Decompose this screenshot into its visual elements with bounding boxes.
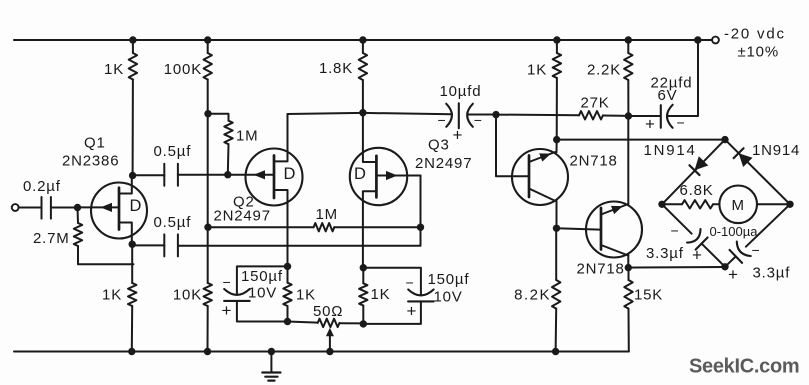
wire 0.5uf C3 to Q3 gate riser <box>178 227 421 246</box>
svg-text:Q3: Q3 <box>428 137 450 154</box>
svg-text:1K: 1K <box>527 62 547 79</box>
label 6.8K <box>680 182 714 199</box>
label D2 1N914 <box>752 142 800 159</box>
wire T2 collector to bridge bottom <box>628 266 725 269</box>
transistor T2 emitter lead <box>601 116 628 215</box>
terminal input <box>12 204 19 211</box>
label 10K <box>173 287 202 304</box>
svg-text:10µfd: 10µfd <box>440 83 482 100</box>
transistor T1 emitter arrow <box>539 153 551 161</box>
wire Q1 gate lead <box>78 206 118 208</box>
wire bridge arm bottom-right lower <box>725 256 736 266</box>
svg-text:2N2386: 2N2386 <box>62 153 119 170</box>
transistor Q3 2N2497 body <box>350 148 407 205</box>
label C4 plus <box>222 301 233 320</box>
wire 100K R2 down to 10K R6 <box>207 80 209 284</box>
wire 22uf C7 to top rail <box>667 40 698 116</box>
node top rail / 1.8K R3 <box>359 36 366 43</box>
wire 2.7M R4 bottom <box>78 246 134 264</box>
wire 27K R14 to 2.2K node <box>603 115 628 117</box>
node Q3 drain / 1K R12 / 150uf C5 <box>360 264 367 271</box>
svg-text:Q1: Q1 <box>84 135 106 152</box>
diode D2 1N914 <box>734 148 753 167</box>
transistor Q2 channel bar <box>273 156 276 199</box>
resistor R17 6.8K <box>682 200 713 208</box>
node bridge left <box>658 201 665 208</box>
wire 0.5uf C2 to Q2 gate <box>178 174 274 176</box>
svg-text:0-100µa: 0-100µa <box>710 224 759 239</box>
label C4 minus <box>223 274 232 290</box>
wire T2 collector to 15K R16 <box>628 268 630 280</box>
wire Q3 gate riser <box>420 176 422 228</box>
label T2 2N718 <box>577 261 625 278</box>
wire 150uf C4 top <box>237 266 288 294</box>
label Q3 <box>428 137 450 154</box>
resistor R10 1M horizontal <box>314 223 335 231</box>
svg-text:2.2K: 2.2K <box>587 62 621 79</box>
label 0-100ua <box>710 224 759 239</box>
node Q1 gate / 2.7M <box>74 204 81 211</box>
label 15K <box>634 287 663 304</box>
svg-text:+: + <box>692 246 703 265</box>
label 0.5uf C2 <box>154 143 192 160</box>
label Q2 pin D <box>284 165 297 183</box>
label Q3 2N2497 <box>415 155 472 172</box>
svg-text:1M: 1M <box>236 128 258 145</box>
svg-text:10V: 10V <box>248 285 277 302</box>
label 1.8K <box>319 60 353 77</box>
svg-text:+: + <box>728 265 739 284</box>
wire 10ufd C6 to base node <box>468 114 497 116</box>
meter M1 body <box>719 186 757 224</box>
wire 150uf C5 bottom <box>363 301 421 324</box>
node bridge right <box>786 201 793 208</box>
node 1M R10 horizontal left end <box>204 224 211 231</box>
wire emitter node to bridge top <box>557 139 725 141</box>
transistor Q1 gate arrow <box>101 203 113 212</box>
wire 1M R10 right lead <box>334 226 420 228</box>
node top rail / 1K R8 <box>553 36 560 43</box>
transistor T1 emitter lead <box>529 140 557 162</box>
svg-text:+: + <box>453 126 464 145</box>
node 1M R10 right / Q3 gate <box>417 224 424 231</box>
wire 1K R5 to ground rail <box>131 306 133 352</box>
node 1K R12 bottom <box>360 320 367 327</box>
label C6 minus right <box>474 112 483 128</box>
svg-text:3.3µf: 3.3µf <box>753 265 791 282</box>
wire 1K R12 bottom <box>362 306 364 324</box>
svg-text:-20 vdc: -20 vdc <box>724 26 786 43</box>
wire gate node to 2.7M R4 <box>77 208 80 224</box>
node top rail / 22uf branch <box>694 36 701 43</box>
capacitor C5 150uf straight plate <box>408 300 434 302</box>
capacitor C1 0.2uf plates <box>42 197 51 219</box>
svg-text:D: D <box>130 197 143 215</box>
transistor Q2 2N2497 body <box>246 149 303 206</box>
svg-text:8.2K: 8.2K <box>514 287 551 304</box>
wire 1K R11 bottom <box>287 306 289 322</box>
svg-text:+: + <box>407 302 418 321</box>
wire bridge arm bottom-right upper <box>746 204 790 246</box>
wire -20V supply rail (top) <box>14 39 712 41</box>
svg-text:1M: 1M <box>316 206 338 223</box>
label C9 3.3uf <box>753 265 791 282</box>
wire 0.2uf C1 to Q1 gate node <box>51 207 78 209</box>
wire 1.8K R3 to source node <box>362 80 364 113</box>
node 100K / 1M R7 tap <box>204 110 211 117</box>
label 10ufd <box>440 83 482 100</box>
transistor T1 base bar <box>528 156 531 198</box>
node 1M / Q2 gate line <box>224 171 231 178</box>
node 27K / 2.2K / 22uf / T2 emitter <box>625 112 632 119</box>
node 8.2K / ground rail <box>552 348 559 355</box>
svg-text:3.3µf: 3.3µf <box>646 245 684 262</box>
wire input to 0.2uf C1 <box>19 207 42 209</box>
wire Q2 source to 1.8K node <box>288 113 363 114</box>
transistor T2 base bar <box>600 208 603 250</box>
label C7 minus <box>677 115 686 131</box>
label 2.7M <box>33 230 70 247</box>
svg-text:15K: 15K <box>634 287 663 304</box>
label 2.2K <box>587 62 621 79</box>
label T1 2N718 <box>570 153 618 170</box>
svg-text:1N914: 1N914 <box>752 142 800 159</box>
capacitor C6 10ufd left curved plate <box>446 104 452 127</box>
svg-text:2N718: 2N718 <box>570 153 618 170</box>
capacitor C3 0.5uf plates <box>164 234 178 256</box>
svg-text:27K: 27K <box>581 95 610 112</box>
svg-text:+: + <box>222 301 233 320</box>
svg-text:M: M <box>732 197 745 214</box>
label Q2 2N2497 <box>214 207 271 224</box>
resistor R14 27K <box>579 111 603 119</box>
wire bridge arm left-bottom lower <box>702 244 725 267</box>
wire 8.2K R15 to ground rail <box>555 309 558 352</box>
node Q2 drain / 1K R11 / 150uf C4 <box>284 263 291 270</box>
transistor Q3 source lead <box>363 113 377 162</box>
label 1M R7 <box>236 128 258 145</box>
wire tap to 1M R7 <box>208 114 229 121</box>
transistor Q2 drain lead <box>274 190 288 266</box>
svg-text:1K: 1K <box>296 287 316 304</box>
wire bridge left to 6.8K R17 <box>662 203 682 205</box>
wire ground rail (bottom) <box>14 351 629 353</box>
capacitor C6 10ufd center plate <box>458 103 460 128</box>
node 1K R11 bottom <box>284 318 291 325</box>
capacitor C7 22uf straight plate <box>660 105 662 128</box>
resistor R16 15K <box>624 280 632 309</box>
wire Q3 gate lead <box>376 175 420 177</box>
svg-text:−: − <box>438 112 447 128</box>
label 1K R8 <box>527 62 547 79</box>
svg-text:6.8K: 6.8K <box>680 182 714 199</box>
label 150uf C4 <box>241 268 283 285</box>
capacitor C8 3.3uf curved plate <box>687 229 700 243</box>
label ±10% <box>738 44 779 61</box>
wire Q2 drain node to 1K R11 <box>287 266 289 282</box>
capacitor C6 10ufd right curved plate <box>467 104 473 127</box>
node 1.8K / Q2 / Q3 sources <box>359 109 366 116</box>
svg-text:150µf: 150µf <box>428 271 470 288</box>
resistor R4 2.7M <box>74 223 82 246</box>
label 1M R10 <box>316 206 338 223</box>
label 0.2uf <box>23 178 61 195</box>
resistor R7 1M <box>224 121 232 145</box>
transistor Q1 drain lead <box>119 223 132 245</box>
label C5 plus <box>407 302 418 321</box>
label C9 minus <box>752 242 761 258</box>
label C8 minus <box>671 223 680 239</box>
wire 1K R8 to emitter node <box>556 78 558 140</box>
svg-text:2N2497: 2N2497 <box>415 155 472 172</box>
wire top rail to 1K R1 <box>132 40 134 53</box>
wire R11 bottom to 50ohm <box>288 322 318 323</box>
wire node to 22uf C7 <box>628 115 659 117</box>
label C8 plus <box>692 246 703 265</box>
label D1 1N914 <box>644 142 697 159</box>
svg-text:−: − <box>671 223 680 239</box>
svg-text:50Ω: 50Ω <box>313 303 343 320</box>
wire 150uf C4 bottom <box>237 301 288 322</box>
transistor Q2 source lead <box>274 114 288 161</box>
svg-text:D: D <box>284 165 297 183</box>
resistor R8 1K <box>553 53 561 78</box>
wire Q1 source to 0.5uf C2 <box>133 174 165 176</box>
wire top rail to 2.2K R9 <box>627 40 629 53</box>
resistor R12 1K <box>359 283 367 305</box>
capacitor C2 0.5uf plates <box>164 164 178 186</box>
label C4 10V <box>248 285 277 302</box>
wire Q3 drain node to 1K R12 <box>362 268 364 284</box>
transistor Q3 channel bar <box>375 156 378 198</box>
label -20 vdc <box>724 26 786 43</box>
svg-text:150µf: 150µf <box>241 268 283 285</box>
wire 1M R10 left lead <box>208 226 314 228</box>
svg-text:2N2497: 2N2497 <box>214 207 271 224</box>
label 27K <box>581 95 610 112</box>
label C5 minus <box>406 275 415 291</box>
node Q1 drain / 0.5uf C3 <box>129 241 136 248</box>
label 22ufd 6V <box>658 87 678 104</box>
wire bridge arm top-left <box>662 140 725 205</box>
node bridge bottom <box>721 263 728 270</box>
svg-text:1N914: 1N914 <box>644 142 697 159</box>
label 22ufd <box>651 75 693 92</box>
svg-text:1.8K: 1.8K <box>319 60 353 77</box>
node T1 collector / T2 base / 8.2K <box>553 225 560 232</box>
svg-text:10K: 10K <box>173 287 202 304</box>
wire 15K R16 to ground rail corner <box>628 309 630 352</box>
resistor R2 100K <box>204 53 212 80</box>
wire Q1 drain to 0.5uf C3 <box>132 244 164 246</box>
label C9 plus <box>728 265 739 284</box>
resistor R3 1.8K <box>359 53 367 80</box>
wire 1K R1 to Q1 source node <box>132 80 134 176</box>
svg-text:−: − <box>406 275 415 291</box>
svg-text:2.7M: 2.7M <box>33 230 70 247</box>
label 0.5uf C3 <box>154 214 192 231</box>
label Q1 pin D <box>130 197 143 215</box>
diode D1 1N914 <box>689 156 708 175</box>
wire 2.2K R9 to 27K node <box>627 80 629 116</box>
label 1K R5 <box>102 287 122 304</box>
capacitor C4 150uf straight plate <box>224 300 250 302</box>
wire T1 node to 8.2K R15 <box>555 228 557 280</box>
node bridge top <box>721 136 728 143</box>
label SeekIC.com watermark <box>689 356 799 378</box>
wire top rail to 100K R2 <box>207 40 209 53</box>
resistor R1 1K <box>129 53 137 80</box>
wire top rail to 1.8K R3 <box>362 40 364 53</box>
svg-text:±10%: ±10% <box>738 44 779 61</box>
node top rail / 1K R1 <box>129 36 136 43</box>
node ground rail / 1K R5 <box>128 348 135 355</box>
terminal -20 vdc <box>712 37 719 44</box>
svg-text:0.5µf: 0.5µf <box>154 214 192 231</box>
svg-text:−: − <box>752 242 761 258</box>
label 100K <box>164 61 202 78</box>
label Q3 pin D <box>354 165 367 183</box>
label 8.2K <box>514 287 551 304</box>
svg-text:−: − <box>223 274 232 290</box>
svg-text:10V: 10V <box>434 288 463 305</box>
wire meter to bridge right <box>757 203 790 205</box>
label 150uf C5 <box>428 271 470 288</box>
node T2 collector / 15K / bridge bottom <box>625 264 632 271</box>
wire 6.8K R17 to meter <box>713 203 719 205</box>
label C6 plus <box>453 126 464 145</box>
node ground rail / ground symbol <box>268 348 275 355</box>
label meter M <box>732 197 745 214</box>
svg-text:1K: 1K <box>371 286 391 303</box>
svg-text:1K: 1K <box>104 61 124 78</box>
label Q1 <box>84 135 106 152</box>
transistor Q1 2N2386 body <box>91 183 147 239</box>
resistor R11 1K <box>283 283 291 306</box>
capacitor C7 22uf curved plate <box>667 105 673 128</box>
resistor R15 8.2K <box>552 280 560 309</box>
svg-text:0.2µf: 0.2µf <box>23 178 61 195</box>
capacitor C4 150uf curved plate <box>224 289 249 295</box>
svg-text:100K: 100K <box>164 61 202 78</box>
node wiper / ground rail <box>326 348 333 355</box>
wire source node to 10ufd C6 <box>363 113 452 114</box>
label C8 3.3uf <box>646 245 684 262</box>
node top rail / 2.2K R9 <box>625 36 632 43</box>
transistor T1 2N718 body <box>512 149 568 205</box>
svg-text:6V: 6V <box>658 87 678 104</box>
transistor T1 collector lead <box>529 189 557 229</box>
capacitor C9 3.3uf curved plate <box>737 242 751 256</box>
resistor R6 10K <box>204 283 212 306</box>
transistor Q1 source lead <box>119 176 132 194</box>
label 1K R11 <box>296 287 316 304</box>
node 1K / T1 emitter / bridge feed <box>553 136 560 143</box>
wire 10K R6 to ground rail <box>207 306 209 352</box>
label 50 ohm <box>313 303 343 320</box>
wire 1M R7 to Q2 gate line <box>227 144 230 175</box>
label C5 10V <box>434 288 463 305</box>
node ground rail / 10K R6 <box>204 348 211 355</box>
svg-text:+: + <box>645 115 656 134</box>
svg-text:2N718: 2N718 <box>577 261 625 278</box>
label Q2 <box>233 194 255 211</box>
wire bridge arm left-bottom upper <box>662 204 692 233</box>
transistor T2 2N718 body <box>586 202 642 258</box>
node Q1 source / 0.5uf C2 <box>129 172 136 179</box>
wire top rail to 1K R8 <box>556 40 558 53</box>
wire T1 collector to T2 base <box>557 228 600 229</box>
capacitor C5 150uf curved plate <box>408 290 433 296</box>
svg-text:0.5µf: 0.5µf <box>154 143 192 160</box>
resistor R5 1K <box>128 283 136 306</box>
label 1K R12 <box>371 286 391 303</box>
label Q1 2N2386 <box>62 153 119 170</box>
wire 50ohm to R12 bottom <box>340 322 364 324</box>
wire bridge arm top-right <box>725 140 790 205</box>
svg-text:1K: 1K <box>102 287 122 304</box>
node T1 base / 27K <box>492 111 499 118</box>
capacitor C8 3.3uf straight plate <box>696 238 708 250</box>
transistor Q1 channel bar <box>118 188 121 230</box>
svg-text:D: D <box>354 165 367 183</box>
wire base node to 27K R14 <box>496 114 579 117</box>
label C7 plus <box>645 115 656 134</box>
transistor Q2 gate arrow <box>254 170 266 179</box>
resistor R13 50 ohm <box>318 319 340 327</box>
ground <box>262 352 280 381</box>
wire 150uf C5 top <box>363 268 421 295</box>
node top rail / 100K R2 <box>204 36 211 43</box>
label 1K R1 <box>104 61 124 78</box>
capacitor C9 3.3uf straight plate <box>730 250 742 263</box>
wire Q1 drain to 1K R5 <box>131 244 133 283</box>
resistor R9 2.2K <box>624 53 632 80</box>
wire T1 base riser <box>496 115 528 177</box>
transistor Q3 drain lead <box>363 191 377 268</box>
transistor Q3 gate arrow <box>386 171 398 180</box>
transistor T2 collector lead <box>601 245 628 268</box>
label C6 minus left <box>438 112 447 128</box>
transistor T2 emitter arrow <box>611 206 623 214</box>
svg-text:SeekIC.com: SeekIC.com <box>689 356 799 378</box>
potentiometer wiper arrow <box>326 328 334 352</box>
